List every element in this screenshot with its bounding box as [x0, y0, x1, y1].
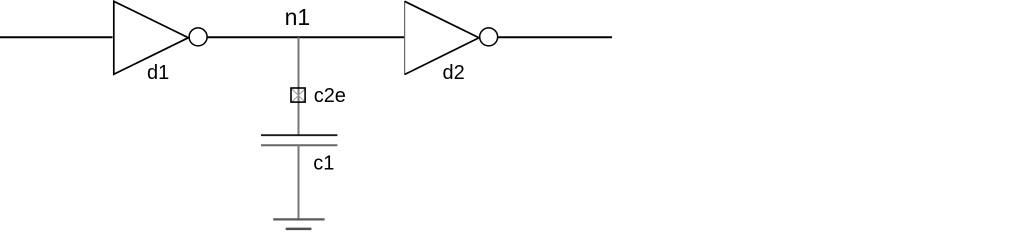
parasitic marker c2e: [291, 88, 305, 102]
svg-text:n1: n1: [285, 4, 311, 30]
wire d2 output: [498, 36, 612, 38]
capacitor c1 top plate: [261, 134, 337, 136]
svg-text:d2: d2: [443, 62, 465, 84]
wire capacitor to ground: [298, 145, 300, 219]
svg-text:d1: d1: [147, 62, 169, 84]
svg-text:c1: c1: [313, 153, 334, 175]
capacitor c1 bottom plate: [261, 144, 337, 146]
svg-text:c2e: c2e: [314, 85, 346, 107]
ground: [273, 219, 324, 229]
wire d1 output to d2 input: [207, 36, 404, 38]
inverter d1: [114, 1, 207, 74]
wire input to d1: [0, 36, 113, 38]
wire node n1 down to capacitor: [298, 37, 300, 135]
inverter d2: [405, 1, 498, 74]
